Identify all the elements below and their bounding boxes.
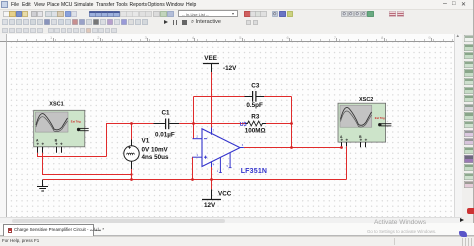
window controls — [443, 0, 447, 7]
svg-text:R3: R3 — [251, 113, 260, 120]
svg-text:-12V: -12V — [223, 65, 237, 72]
svg-text:Ext Trig: Ext Trig — [375, 116, 385, 120]
junction VCC wire at ground bus crossing — [210, 178, 213, 181]
junction at inverting input node — [192, 122, 195, 125]
ground — [37, 180, 48, 192]
ruler corner — [0, 34, 7, 42]
oscilloscope XSC2 — [338, 97, 391, 148]
tab bar — [0, 223, 474, 236]
svg-text:V1: V1 — [142, 137, 150, 144]
junction non-inverting ground — [191, 178, 194, 181]
svg-text:6: 6 — [242, 143, 244, 147]
wire: V1 top lead — [131, 124, 133, 147]
capacitor C1 — [154, 109, 180, 138]
junction feedback to output — [290, 146, 293, 149]
resistor R3 — [245, 113, 266, 134]
svg-text:4ns 50us: 4ns 50us — [142, 154, 169, 161]
status bar — [0, 236, 474, 246]
toolbar row 2 — [0, 9, 474, 17]
oscilloscope XSC1 — [34, 102, 89, 153]
junction output to XSC2 A+ — [340, 146, 343, 149]
vertical scrollbar — [454, 34, 462, 217]
svg-text:4: 4 — [213, 163, 215, 167]
svg-text:C1: C1 — [162, 109, 171, 116]
wire: XSC1 A- to ground line — [43, 153, 132, 175]
svg-text:C3: C3 — [251, 82, 260, 89]
power VCC wire — [211, 167, 213, 200]
svg-text:7: 7 — [213, 129, 215, 133]
wire: main input horizontal — [106, 123, 292, 125]
svg-text:2: 2 — [197, 135, 199, 139]
wire: V1 bottom lead — [131, 161, 133, 179]
wire: feedback top C3 branch — [194, 97, 292, 148]
op-amp U3 LF351N — [193, 122, 268, 175]
junction R3 right — [290, 122, 293, 125]
wire: XSC1 A+ to input node — [38, 124, 107, 157]
horizontal ruler — [7, 34, 454, 42]
power symbol VEE — [203, 55, 237, 72]
svg-text:12V: 12V — [204, 202, 216, 209]
wire: feedback left vertical to inverting input — [193, 97, 195, 139]
svg-text:Ext Trig: Ext Trig — [71, 119, 81, 123]
power symbol VCC — [202, 190, 232, 208]
capacitor C3 — [245, 82, 265, 109]
instruments toolbar — [462, 34, 474, 217]
svg-text:U3: U3 — [240, 122, 247, 128]
wire: XSC2 A- to ground line — [346, 146, 348, 179]
svg-text:VEE: VEE — [204, 55, 217, 62]
svg-text:XSC1: XSC1 — [49, 102, 63, 108]
in-use list combo — [178, 10, 238, 17]
wire: non-inverting input to ground — [192, 157, 194, 179]
right window border — [473, 0, 474, 246]
svg-text:XSC2: XSC2 — [359, 97, 373, 103]
power VEE wire — [211, 64, 213, 128]
wire: ground bus — [43, 179, 347, 181]
svg-text:3: 3 — [197, 153, 199, 157]
svg-text:5: 5 — [227, 164, 229, 168]
menu bar — [0, 0, 474, 10]
wire: output to XSC2 A+ — [244, 146, 342, 147]
svg-text:100MΩ: 100MΩ — [245, 127, 266, 134]
svg-text:VCC: VCC — [218, 190, 232, 197]
junction V1 minus to ground bus — [130, 178, 133, 181]
toolbar row 4 — [0, 26, 474, 35]
left band — [0, 42, 7, 217]
overlay marks right edge — [467, 208, 474, 214]
svg-text:1: 1 — [217, 169, 219, 173]
source V1 — [124, 137, 169, 161]
svg-text:LF351N: LF351N — [241, 168, 268, 175]
horizontal scrollbar — [0, 217, 462, 223]
activate windows overlay — [374, 219, 426, 226]
junction XSC1 A- wire at V1 lead — [130, 173, 132, 175]
svg-text:0.5pF: 0.5pF — [246, 102, 263, 109]
svg-text:0V 10mV: 0V 10mV — [142, 147, 169, 154]
svg-text:0.01µF: 0.01µF — [155, 131, 175, 138]
canvas — [7, 42, 454, 217]
junction at V1 top / input node — [130, 122, 133, 125]
toolbar row 3 — [0, 17, 474, 26]
